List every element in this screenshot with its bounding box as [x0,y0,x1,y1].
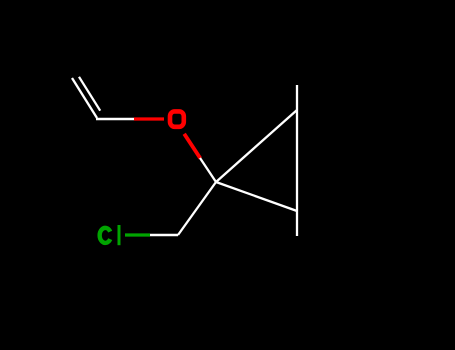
wire: CH=CH-O bond, white half (vinyl carbon to midpoint) [96,118,135,120]
wire: C1 to CH2Cl carbon [178,182,216,235]
wire: O-C1 bond, red half (O to midpoint) [184,134,200,159]
wire: C=C double bond inner line [79,77,100,111]
wire: CH2-Cl bond, green half [125,233,150,236]
node Cl (chlorine label): letter l [118,225,121,245]
wire: ring right edge C2-C3 plus both methyl stubs (vertical line) [296,85,298,236]
wire: C=C double bond outer line (vinyl CH2 to CH) [72,78,97,118]
node Cl (chlorine label): letter C [100,228,111,243]
node O (ether oxygen) [170,111,184,126]
wire: cyclopropane ring lower bond C1 to C3 [216,182,297,211]
wire: O-C1 bond, white half (midpoint to C1) [200,158,216,182]
wire: CH2-Cl bond, white half [150,234,178,236]
wire: cyclopropane ring upper bond C1 to C2 [216,110,297,182]
wire: CH-O bond, red half (midpoint to O) [134,117,164,120]
